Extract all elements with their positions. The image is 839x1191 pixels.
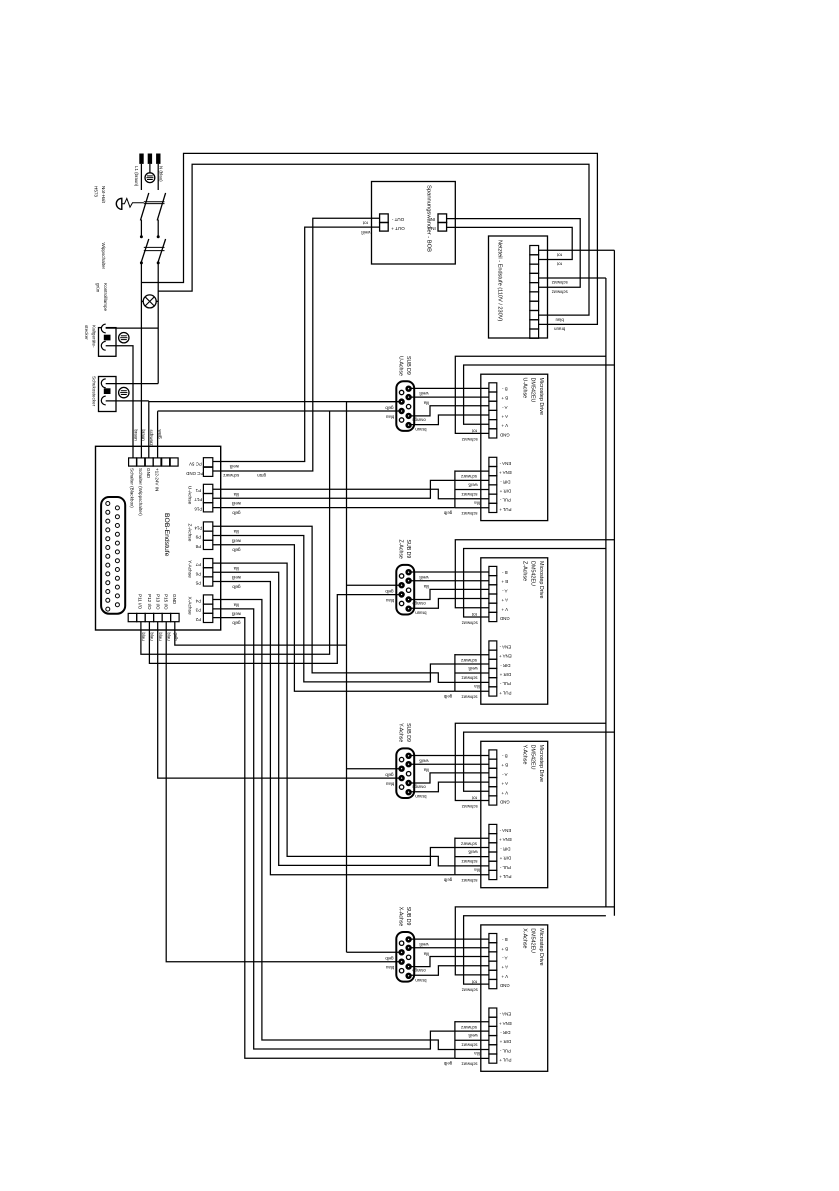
drive Z motor/power terminal strip: [489, 566, 497, 621]
svg-text:weiß: weiß: [361, 230, 371, 235]
svg-text:gelb: gelb: [443, 694, 452, 699]
wire L1 after rocker switch: [140, 263, 142, 458]
wire orange A- Z: [411, 589, 489, 599]
wire rot Netzteil pin1 to V+ bus: [539, 249, 615, 251]
wire rot V+ feed U: [464, 365, 615, 424]
svg-text:weiß: weiß: [419, 758, 429, 763]
wire blau P13 to Z SUB D9: [149, 595, 398, 664]
svg-text:rot: rot: [362, 220, 368, 225]
drive U control terminal strip: [489, 457, 497, 512]
emergency stop mushroom head: [116, 198, 122, 209]
Netzteil terminal strip: [530, 246, 539, 339]
wire gelb stub to Z SUB D9: [347, 584, 399, 586]
wire rot V+ bus: [613, 250, 615, 916]
rocker switch blade (L1): [141, 239, 149, 264]
wire schwarz GND feed Y: [455, 723, 606, 800]
svg-text:lila: lila: [233, 566, 239, 571]
svg-text:H573: H573: [94, 186, 99, 197]
terminal OUT+: [380, 223, 389, 232]
wire weiss B- U: [411, 387, 489, 389]
svg-text:schwarz: schwarz: [461, 1025, 477, 1030]
svg-text:B +: B +: [501, 396, 508, 401]
svg-text:ENA +: ENA +: [499, 837, 512, 842]
svg-text:DM542EU: DM542EU: [530, 378, 536, 403]
microstep drive box Z-Achse (DM542EU): [481, 558, 548, 704]
wire orange A- Y: [411, 773, 489, 783]
svg-text:schwarz: schwarz: [461, 859, 477, 864]
svg-text:schwarz: schwarz: [461, 1043, 477, 1048]
svg-text:A +: A +: [501, 598, 508, 603]
wire gelb to PUL+ Z: [213, 545, 455, 692]
wire +12-24V riser to SUB D9 pin: [158, 410, 399, 412]
svg-text:SUB D9: SUB D9: [405, 540, 411, 559]
svg-text:A +: A +: [501, 414, 508, 419]
svg-text:P4: P4: [195, 599, 201, 604]
svg-text:+12-24V IN: +12-24V IN: [154, 468, 159, 491]
svg-text:A -: A -: [502, 588, 508, 593]
svg-text:orange: orange: [412, 601, 426, 606]
svg-text:schwarz: schwarz: [461, 511, 477, 516]
wire weiss P17 to DIR- U: [213, 480, 489, 498]
svg-text:schwarz: schwarz: [552, 290, 568, 295]
wire gelb stub to U SUB D9: [347, 401, 399, 403]
Schukostecker body: [99, 377, 117, 412]
wire weiss to DIR- X: [213, 609, 489, 1049]
power supply box Netzteil - Endstufe: [489, 236, 548, 338]
emergency stop actuator spring and stem: [122, 198, 144, 207]
svg-text:P14: P14: [194, 526, 202, 531]
wire N after rocker switch: [157, 263, 159, 384]
SUB D9 connector Z-Achse: [396, 565, 414, 615]
svg-text:schwarz: schwarz: [461, 492, 477, 497]
BOB I/O terminal strip (bottom): [128, 613, 179, 621]
svg-text:DIR +: DIR +: [499, 489, 511, 494]
wire schwarz control common U: [455, 470, 489, 507]
svg-text:lila: lila: [423, 768, 429, 773]
svg-text:Microstep Drive: Microstep Drive: [538, 928, 544, 965]
indicator lamp stub: [141, 300, 158, 302]
svg-text:ENA +: ENA +: [499, 654, 512, 659]
svg-text:orange: orange: [412, 968, 426, 973]
svg-text:blau: blau: [166, 633, 171, 642]
svg-text:V +: V +: [501, 423, 508, 428]
wire braun A+ U: [411, 415, 489, 425]
mains plug pin N: [156, 154, 160, 164]
svg-text:PUL +: PUL +: [499, 691, 512, 696]
svg-text:PUL -: PUL -: [499, 865, 511, 870]
wire schwarz control common Z: [455, 654, 489, 691]
svg-text:PUL +: PUL +: [499, 1058, 512, 1063]
svg-text:weiß: weiß: [419, 391, 429, 396]
wire schwarz GND feed U: [455, 356, 606, 433]
emergency stop mechanical link: [144, 201, 165, 203]
svg-text:weiß: weiß: [468, 850, 478, 855]
svg-text:GND: GND: [500, 983, 510, 988]
svg-text:blau: blau: [385, 965, 394, 970]
indicator lamp (Kontrolllampe gruen): [143, 295, 156, 308]
svg-text:U-Achse: U-Achse: [187, 486, 193, 505]
wire orange A- X: [411, 957, 489, 967]
mains plug pin PE: [148, 154, 152, 164]
svg-text:Microstep Drive: Microstep Drive: [538, 745, 544, 782]
svg-text:Y-Achse: Y-Achse: [398, 723, 404, 742]
svg-text:lila: lila: [474, 500, 480, 505]
wire braun A+ X: [411, 966, 489, 976]
wire orange A- U: [411, 406, 489, 416]
wire N between switches: [157, 220, 159, 237]
svg-text:lila: lila: [474, 1051, 480, 1056]
svg-text:grün: grün: [257, 473, 266, 478]
wire N from plug: [157, 164, 159, 190]
svg-text:P2: P2: [195, 617, 201, 622]
svg-text:DIR -: DIR -: [500, 846, 511, 851]
wire blau P12 to U SUB D9: [141, 411, 330, 654]
svg-text:rot: rot: [471, 979, 477, 984]
wire weiss B- X: [411, 938, 489, 940]
svg-text:B -: B -: [501, 570, 507, 575]
svg-text:Wippschalter: Wippschalter: [101, 243, 106, 270]
wire L1 between switches: [140, 220, 142, 237]
svg-text:P11 I/O: P11 I/O: [137, 594, 142, 610]
svg-text:DIR +: DIR +: [499, 1039, 511, 1044]
svg-text:Kontrolllampe: Kontrolllampe: [103, 283, 108, 312]
svg-text:braun: braun: [415, 794, 427, 799]
svg-text:OUT +: OUT +: [391, 226, 405, 231]
svg-text:P3: P3: [195, 608, 201, 613]
wire weiss B- Y: [411, 755, 489, 757]
svg-text:rot: rot: [556, 262, 562, 267]
wire rot V+ feed Y: [464, 732, 615, 791]
svg-text:rot: rot: [556, 252, 562, 257]
svg-text:Z-Achse: Z-Achse: [521, 561, 527, 581]
wire lila to PUL- X: [213, 600, 489, 1050]
svg-text:orange: orange: [412, 784, 426, 789]
wire braun Kaltgeraetestecker to BOB Schalter (Blackbox): [106, 346, 133, 458]
drive Z control terminal strip: [489, 641, 497, 696]
wire Schukostecker to GND node: [106, 400, 149, 402]
rocker switch contact dots: [140, 236, 142, 238]
svg-text:OUT -: OUT -: [391, 217, 404, 222]
svg-text:P1: P1: [195, 488, 201, 493]
svg-text:ENA -: ENA -: [499, 1012, 511, 1017]
wire rot IN+ from Netzteil: [447, 227, 573, 259]
svg-text:schwarz: schwarz: [552, 280, 568, 285]
svg-text:Not-Halt: Not-Halt: [101, 186, 106, 204]
svg-text:DIR +: DIR +: [499, 856, 511, 861]
svg-text:lila: lila: [233, 492, 239, 497]
svg-text:P7: P7: [195, 562, 201, 567]
Schukostecker PE symbol: [119, 387, 129, 397]
svg-text:weiß: weiß: [468, 1033, 478, 1038]
svg-text:P8: P8: [195, 544, 201, 549]
svg-text:schwarz: schwarz: [462, 988, 478, 993]
svg-text:weiß: weiß: [468, 483, 478, 488]
wire GND row to BOB: [148, 401, 150, 458]
svg-text:PUL +: PUL +: [499, 507, 512, 512]
drive X control terminal strip: [489, 1008, 497, 1063]
wire schwarz control common X: [455, 1021, 489, 1058]
Kaltgeraetestecker PE symbol: [119, 333, 129, 343]
rocker switch blade (N): [158, 239, 166, 264]
wire schwarz IN- from Netzteil: [447, 219, 581, 288]
svg-text:schwarz: schwarz: [149, 430, 154, 446]
svg-text:weiß: weiß: [231, 612, 241, 617]
microstep drive box U-Achse (DM542EU): [481, 374, 548, 520]
wire blau mains bus to Netzteil: [158, 164, 589, 315]
wire schwarz control common Y: [455, 838, 489, 875]
svg-text:V +: V +: [501, 790, 508, 795]
svg-text:N (blau): N (blau): [158, 166, 163, 182]
svg-text:SUB D9: SUB D9: [405, 356, 411, 375]
svg-text:stecker: stecker: [84, 325, 89, 340]
svg-text:P5: P5: [195, 581, 201, 586]
svg-text:weiß: weiß: [229, 464, 239, 469]
svg-text:GND: GND: [500, 432, 510, 437]
svg-text:Y-Achse: Y-Achse: [187, 560, 193, 578]
svg-text:A -: A -: [502, 405, 508, 410]
svg-text:schwarz: schwarz: [462, 437, 478, 442]
svg-text:GND: GND: [146, 468, 151, 479]
svg-text:SUB D9: SUB D9: [405, 723, 411, 742]
svg-text:blau: blau: [141, 633, 146, 642]
svg-text:braun: braun: [415, 978, 427, 983]
emergency stop switch blade (L1): [140, 193, 148, 221]
SUB D9 connector Y-Achse: [396, 748, 414, 798]
svg-text:Kaltgeräte-: Kaltgeräte-: [92, 325, 97, 348]
svg-text:X-Achse: X-Achse: [187, 597, 193, 615]
drive U motor/power terminal strip: [489, 383, 497, 438]
svg-text:P9: P9: [195, 535, 201, 540]
BOB terminal PC GND: [203, 467, 212, 476]
svg-text:ENA -: ENA -: [499, 828, 511, 833]
svg-text:A +: A +: [501, 965, 508, 970]
svg-text:Microstep Drive: Microstep Drive: [538, 378, 544, 415]
drive Y control terminal strip: [489, 824, 497, 879]
svg-text:PUL -: PUL -: [499, 1048, 511, 1053]
BOB terminal PC 5V: [203, 458, 212, 467]
svg-text:B +: B +: [501, 946, 508, 951]
svg-text:GND: GND: [172, 594, 177, 605]
svg-text:rot: rot: [471, 429, 477, 434]
wire gelb GND to gelb bus: [175, 622, 347, 645]
svg-text:V +: V +: [501, 607, 508, 612]
svg-text:ENA -: ENA -: [499, 645, 511, 650]
svg-text:gelb: gelb: [443, 1061, 452, 1066]
svg-text:DIR +: DIR +: [499, 672, 511, 677]
svg-text:weiß: weiß: [231, 501, 241, 506]
svg-text:PUL -: PUL -: [499, 498, 511, 503]
svg-text:schwarz: schwarz: [462, 621, 478, 626]
svg-text:ENA +: ENA +: [499, 1021, 512, 1026]
svg-text:schwarz: schwarz: [461, 676, 477, 681]
svg-text:gelb: gelb: [385, 772, 394, 777]
svg-text:schwarz: schwarz: [461, 695, 477, 700]
svg-text:L1 (braun): L1 (braun): [134, 166, 139, 187]
svg-text:gelb: gelb: [232, 548, 241, 553]
svg-text:blau: blau: [385, 414, 394, 419]
svg-text:blau: blau: [555, 317, 564, 322]
wire GND riser to SUB D9 pin: [149, 401, 399, 403]
emergency stop switch blade (N): [157, 193, 165, 221]
svg-text:PC 5V: PC 5V: [189, 461, 202, 466]
mains plug pin L1: [139, 154, 143, 164]
terminal IN+: [438, 223, 447, 232]
svg-text:P15 I/O: P15 I/O: [164, 594, 169, 610]
SUB D9 connector X-Achse: [396, 932, 414, 982]
svg-text:gelb: gelb: [385, 589, 394, 594]
svg-text:lila: lila: [474, 867, 480, 872]
svg-text:blau: blau: [150, 633, 155, 642]
wire braun A+ Y: [411, 782, 489, 792]
svg-text:SUB D9: SUB D9: [405, 907, 411, 926]
svg-text:lila: lila: [423, 951, 429, 956]
microstep drive box Y-Achse (DM542EU): [481, 741, 548, 887]
svg-text:DIR -: DIR -: [500, 1030, 511, 1035]
PE socket symbol: [145, 173, 155, 183]
wire rot V+ feed Z: [455, 540, 614, 608]
svg-text:PUL +: PUL +: [499, 874, 512, 879]
terminal OUT-: [380, 214, 389, 223]
wire gelb to PUL+ X: [213, 618, 455, 1059]
svg-text:B +: B +: [501, 579, 508, 584]
BOB U-Achse pin group: [203, 484, 212, 512]
svg-text:P17: P17: [194, 497, 202, 502]
voltage converter box Spannungswandler - BOB: [372, 182, 456, 265]
svg-text:weiß: weiß: [419, 942, 429, 947]
wire schwarz GND bus: [605, 278, 607, 907]
svg-text:DM542EU: DM542EU: [530, 928, 536, 953]
svg-text:Z-Achse: Z-Achse: [398, 540, 404, 559]
wire lila B+ X: [411, 947, 489, 949]
svg-text:lila: lila: [474, 684, 480, 689]
svg-text:DIR -: DIR -: [500, 479, 511, 484]
svg-text:IN -: IN -: [427, 217, 435, 222]
svg-text:braun: braun: [415, 427, 427, 432]
wire weiss to DIR- Y: [213, 572, 489, 865]
wire PE from plug: [149, 164, 151, 173]
wire schwarz GND feed Z: [464, 549, 606, 618]
svg-text:B -: B -: [501, 754, 507, 759]
wire rot V+ feed X: [455, 907, 614, 975]
wire lila P1 to PUL- U: [213, 489, 489, 499]
svg-text:schwarz: schwarz: [461, 1062, 477, 1067]
svg-text:P12 I/O: P12 I/O: [147, 594, 152, 610]
Kaltgeraetestecker body: [99, 328, 117, 357]
drive Y motor/power terminal strip: [489, 750, 497, 805]
svg-text:V +: V +: [501, 974, 508, 979]
svg-text:BOB-Endstufe: BOB-Endstufe: [163, 513, 170, 557]
wire gelb stub to Y SUB D9: [347, 768, 399, 770]
drive X motor/power terminal strip: [489, 934, 497, 989]
wire gelb to PUL+ Y: [213, 582, 455, 875]
svg-text:ENA -: ENA -: [499, 461, 511, 466]
svg-text:PUL -: PUL -: [499, 681, 511, 686]
svg-text:Microstep Drive: Microstep Drive: [538, 561, 544, 598]
svg-text:blau: blau: [385, 598, 394, 603]
svg-text:PC GND: PC GND: [186, 471, 203, 476]
svg-text:Netzteil - Endstufe (110V / 23: Netzteil - Endstufe (110V / 230V): [496, 240, 502, 321]
svg-text:Schalter (Wippschalter): Schalter (Wippschalter): [138, 468, 143, 516]
svg-text:gelb: gelb: [443, 510, 452, 515]
svg-text:grün: grün: [96, 283, 101, 293]
wire rot OUT- to BOB PC GND: [213, 218, 380, 471]
svg-text:P16: P16: [194, 506, 202, 511]
svg-text:braun: braun: [133, 430, 138, 442]
wire schwarz GND feed X: [464, 916, 606, 984]
svg-text:DM542EU: DM542EU: [530, 745, 536, 770]
svg-text:gelb: gelb: [385, 956, 394, 961]
svg-text:ENA +: ENA +: [499, 470, 512, 475]
wire braun A+ Z: [411, 599, 489, 609]
wire N into Kaltgeraetestecker: [106, 327, 159, 329]
svg-text:gelb: gelb: [232, 620, 241, 625]
wire gelb P16 to PUL+ U: [213, 507, 455, 509]
svg-text:A +: A +: [501, 781, 508, 786]
svg-text:DIR -: DIR -: [500, 663, 511, 668]
wire lila to PUL- Z: [213, 526, 489, 682]
BOB X-Achse pin group: [203, 595, 212, 623]
wire blau P15 to Y SUB D9: [158, 622, 399, 778]
wire lila to PUL- Y: [213, 563, 489, 866]
wire gelb bus along SUB D9 shells: [346, 402, 348, 953]
svg-text:schwarz: schwarz: [461, 474, 477, 479]
svg-text:P13 I/O: P13 I/O: [155, 594, 160, 610]
svg-text:X-Achse: X-Achse: [521, 928, 527, 948]
svg-text:weiß: weiß: [419, 575, 429, 580]
svg-text:gelb: gelb: [232, 584, 241, 589]
rocker switch mechanical link: [144, 246, 165, 248]
svg-text:GND: GND: [500, 800, 510, 805]
wire schwarz Netzteil pin4 to GND bus: [539, 277, 606, 279]
terminal IN-: [438, 214, 447, 223]
svg-text:gelb: gelb: [385, 405, 394, 410]
svg-text:GND: GND: [500, 616, 510, 621]
svg-text:U-Achse: U-Achse: [398, 356, 404, 376]
svg-text:lila: lila: [423, 401, 429, 406]
svg-text:blau: blau: [158, 633, 163, 642]
wire lila B+ Z: [411, 580, 489, 582]
wire N into Schukostecker: [106, 383, 159, 385]
svg-text:weiß: weiß: [157, 430, 162, 440]
wire L1 from plug: [140, 164, 142, 190]
BOB input terminal strip (Schalter/GND/+12-24V): [129, 458, 179, 466]
svg-text:schwarz: schwarz: [462, 804, 478, 809]
svg-text:Schalter (Blackbox): Schalter (Blackbox): [130, 468, 135, 508]
microstep drive box X-Achse (DM542EU): [481, 925, 548, 1071]
svg-text:braun: braun: [141, 430, 146, 442]
svg-text:B -: B -: [501, 937, 507, 942]
svg-text:braun: braun: [554, 327, 566, 332]
wire weiss B- Z: [411, 571, 489, 573]
svg-text:orange: orange: [412, 417, 426, 422]
svg-text:lila: lila: [233, 602, 239, 607]
svg-text:gelb: gelb: [443, 877, 452, 882]
svg-text:schwarz: schwarz: [223, 473, 239, 478]
svg-text:B +: B +: [501, 763, 508, 768]
svg-text:weiß: weiß: [231, 538, 241, 543]
svg-text:Y-Achse: Y-Achse: [521, 745, 527, 765]
svg-text:schwarz: schwarz: [461, 841, 477, 846]
wire blau GND? to X SUB D9: [166, 622, 399, 962]
svg-text:gelb: gelb: [232, 510, 241, 515]
svg-text:weiß: weiß: [231, 575, 241, 580]
svg-text:weiß: weiß: [468, 666, 478, 671]
svg-text:A -: A -: [502, 772, 508, 777]
svg-text:rot: rot: [471, 612, 477, 617]
svg-text:lila: lila: [233, 529, 239, 534]
BOB Y-Achse pin group: [203, 559, 212, 587]
BOB Z-Achse pin group: [203, 522, 212, 550]
